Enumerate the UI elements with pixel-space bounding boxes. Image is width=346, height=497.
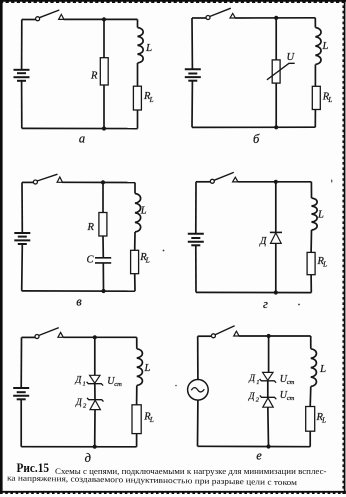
- wire circuit-g right top: [310, 182, 312, 198]
- svg-text:L: L: [317, 210, 324, 221]
- wire circuit-e right mid: [309, 387, 312, 407]
- wire circuit-d right top: [136, 337, 138, 349]
- zener diode D2 circuit-e: [263, 398, 273, 407]
- resistor R circuit-a: [100, 58, 108, 85]
- wire circuit-e bottom: [198, 445, 311, 447]
- wire circuit-a top: [22, 19, 36, 21]
- wire circuit-d top: [22, 336, 36, 338]
- wire circuit-e left: [197, 336, 199, 379]
- inductor L circuit-a: [138, 28, 144, 64]
- wire circuit-b left: [191, 18, 193, 69]
- wire circuit-b right bottom: [314, 110, 316, 128]
- node circuit-b top junction: [274, 16, 278, 20]
- resistor RL circuit-g: [307, 252, 315, 274]
- zener diode D1 circuit-d: [90, 375, 100, 383]
- wire circuit-g left: [195, 182, 197, 234]
- wire circuit-b bottom: [192, 126, 315, 128]
- wire circuit-b middle branch: [275, 18, 277, 60]
- svg-text:L: L: [327, 96, 332, 104]
- svg-text:L: L: [149, 416, 154, 424]
- node circuit-g bottom junction: [274, 290, 278, 294]
- svg-text:Рис.15: Рис.15: [17, 460, 50, 475]
- wire circuit-a left: [21, 20, 23, 70]
- battery GB circuit-b: [185, 68, 201, 70]
- wire circuit-v bottom: [22, 290, 135, 292]
- svg-text:ст: ст: [114, 381, 122, 388]
- wire circuit-a right bottom: [137, 110, 139, 129]
- switch S circuit-d: [35, 335, 39, 339]
- wire circuit-v middle branch: [102, 182, 104, 212]
- battery GB circuit-g: [188, 233, 204, 235]
- node speck near circuit-v RL: [163, 250, 165, 252]
- AC source G circuit-e: [188, 380, 209, 401]
- svg-text:R: R: [87, 222, 95, 233]
- wire frame-right-dotted: [344, 0, 346, 494]
- inductor L circuit-b: [315, 28, 321, 65]
- node circuit-v top junction: [101, 180, 105, 184]
- node circuit-e top junction: [267, 334, 271, 338]
- wire circuit-d left: [20, 337, 22, 387]
- wire frame-left-bar: [0, 0, 3, 494]
- wire circuit-v right top: [134, 183, 136, 194]
- wire circuit-a middle branch: [103, 19, 105, 57]
- wire circuit-g top: [196, 181, 211, 183]
- zener diode D1 circuit-e: [263, 372, 273, 380]
- wire circuit-b right top: [314, 18, 316, 28]
- varistor RU arrow circuit-b: [267, 63, 295, 80]
- wire circuit-a right mid: [137, 63, 139, 86]
- battery GB circuit-a: [14, 69, 30, 71]
- wire circuit-e top: [198, 335, 212, 337]
- inductor L circuit-d: [137, 349, 143, 386]
- svg-text:б: б: [253, 132, 260, 146]
- wire circuit-d middle branch: [94, 337, 96, 375]
- node circuit-b bottom junction: [274, 125, 278, 129]
- inductor L circuit-v: [135, 194, 141, 232]
- wire circuit-e right top: [310, 336, 312, 349]
- svg-text:L: L: [145, 42, 152, 54]
- wire circuit-d right bottom: [136, 434, 138, 447]
- wire circuit-g bottom: [196, 291, 311, 293]
- wire circuit-d bottom: [21, 446, 136, 448]
- node circuit-g top junction: [274, 180, 278, 184]
- switch S circuit-a: [36, 17, 40, 21]
- svg-text:L: L: [319, 363, 326, 375]
- node speck comma near circuit-g top right: [330, 180, 333, 183]
- wire circuit-g right bottom: [310, 275, 312, 293]
- wire frame-bottom-dotted: [0, 491, 346, 493]
- node circuit-d bottom junction: [93, 445, 97, 449]
- wire circuit-a right top: [137, 19, 139, 27]
- battery GB circuit-d: [13, 387, 29, 389]
- wire circuit-v right mid: [134, 232, 136, 250]
- battery GB circuit-v: [14, 232, 30, 234]
- svg-text:L: L: [321, 417, 326, 425]
- svg-text:1: 1: [83, 380, 86, 387]
- node circuit-a top junction: [102, 17, 106, 21]
- resistor RL circuit-b: [312, 86, 320, 109]
- svg-text:L: L: [140, 206, 147, 217]
- svg-text:ст: ст: [287, 395, 295, 402]
- node circuit-a bottom junction: [102, 126, 106, 130]
- node circuit-d top junction: [93, 335, 97, 339]
- wire circuit-a bottom: [22, 127, 138, 129]
- wire circuit-e right bottom: [309, 431, 311, 447]
- node speck near circuit-g bottom right: [298, 304, 300, 306]
- svg-text:г: г: [263, 297, 268, 311]
- node speck left of circuit-e: [175, 385, 177, 387]
- varistor RU circuit-b: [272, 60, 280, 83]
- wire frame-top-dotted: [0, 0, 346, 2]
- zener diode D2 circuit-d: [90, 400, 100, 409]
- svg-text:д: д: [85, 451, 91, 465]
- switch S circuit-g: [210, 179, 214, 183]
- wire circuit-b top: [192, 17, 206, 19]
- resistor RL circuit-e: [306, 407, 315, 432]
- resistor RL circuit-v: [131, 250, 139, 273]
- diode D circuit-g: [271, 233, 282, 244]
- resistor RL circuit-d: [132, 405, 141, 434]
- node circuit-v bottom junction: [101, 289, 105, 293]
- resistor R circuit-v: [99, 213, 107, 237]
- wire circuit-g right mid: [310, 230, 312, 252]
- svg-text:ст: ст: [287, 379, 295, 386]
- svg-text:L: L: [322, 261, 327, 269]
- svg-text:а: а: [79, 131, 85, 145]
- capacitor C circuit-v: [95, 257, 111, 259]
- wire circuit-e middle branch: [268, 336, 270, 372]
- switch S circuit-b: [206, 16, 210, 20]
- resistor RL circuit-a: [133, 86, 141, 110]
- inductor L circuit-e: [311, 349, 317, 387]
- svg-text:L: L: [145, 257, 150, 265]
- wire circuit-v right bottom: [134, 274, 136, 292]
- wire circuit-v left: [21, 182, 23, 232]
- svg-text:е: е: [256, 449, 262, 463]
- svg-text:L: L: [322, 41, 329, 52]
- wire circuit-g middle branch: [275, 182, 277, 233]
- wire circuit-d right mid: [136, 386, 138, 405]
- svg-text:L: L: [149, 96, 154, 104]
- svg-text:R: R: [90, 71, 98, 82]
- svg-text:в: в: [76, 295, 82, 309]
- wire circuit-b right mid: [314, 65, 316, 87]
- switch S circuit-e: [211, 334, 215, 338]
- svg-text:C: C: [87, 255, 95, 266]
- node circuit-e bottom junction: [266, 444, 270, 448]
- svg-text:Д: Д: [259, 236, 267, 247]
- wire circuit-v top: [22, 181, 34, 183]
- svg-text:L: L: [144, 363, 151, 374]
- switch S circuit-v: [33, 180, 37, 184]
- svg-text:1: 1: [256, 379, 259, 386]
- inductor L circuit-g: [312, 198, 318, 230]
